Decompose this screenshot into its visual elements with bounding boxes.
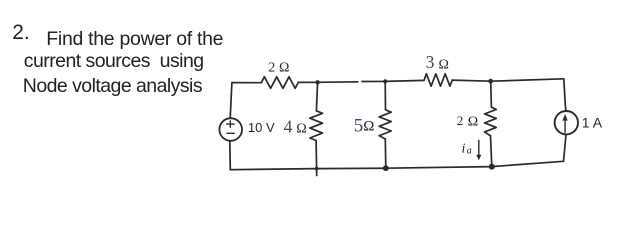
svg-text:Ω: Ω bbox=[468, 114, 478, 129]
svg-text:2: 2 bbox=[457, 113, 464, 128]
svg-text:Ω: Ω bbox=[439, 57, 449, 72]
svg-text:a: a bbox=[467, 146, 472, 157]
svg-text:Ω: Ω bbox=[296, 121, 306, 136]
svg-text:10 V: 10 V bbox=[248, 120, 275, 135]
svg-text:1 A: 1 A bbox=[582, 114, 603, 130]
svg-text:4: 4 bbox=[284, 117, 293, 137]
svg-text:3: 3 bbox=[426, 52, 435, 72]
svg-text:i: i bbox=[462, 141, 466, 156]
svg-text:Ω: Ω bbox=[363, 118, 374, 134]
svg-text:2: 2 bbox=[268, 61, 275, 76]
svg-text:Ω: Ω bbox=[279, 61, 289, 76]
svg-text:5: 5 bbox=[354, 115, 364, 136]
